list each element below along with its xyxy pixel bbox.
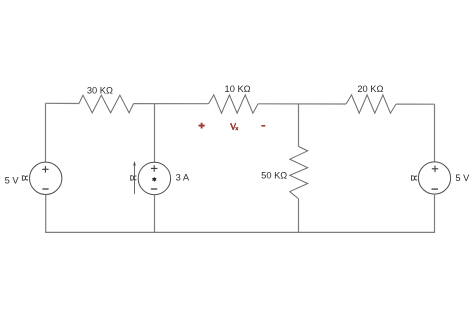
resistor 50 KΩ [290,147,308,199]
I1 DC mark [131,176,137,180]
V1 plus sign [42,166,48,173]
svg-text:3 A: 3 A [176,173,190,183]
resistor 20 KΩ [346,95,396,113]
resistor 10 KΩ [209,95,259,113]
svg-text:20 KΩ: 20 KΩ [357,84,383,94]
red minus polarity mark [261,125,265,127]
svg-text:30 KΩ: 30 KΩ [87,86,113,96]
wire bottom rail [45,231,435,233]
wire top rail R 30K to R 10K (through node A) [134,103,209,105]
svg-text:5 V: 5 V [455,173,470,183]
wire top rail segment V1 to R 30K [46,102,80,104]
current source I1 3 A [138,162,170,194]
V2 minus sign [432,188,439,190]
wire R 50K branch bottom [298,199,300,233]
wire right branch bottom [434,194,436,232]
voltage source V2 5 V [418,162,450,194]
red label vx [231,123,238,129]
wire left branch top [45,103,47,162]
wire current source branch top [154,104,156,163]
wire top rail R 10K to R 20K (through node B) [258,103,346,105]
svg-text:10 KΩ: 10 KΩ [225,84,251,94]
red plus polarity mark [199,123,205,129]
V2 plus sign [432,166,438,173]
resistor 30 KΩ [79,95,134,113]
I1 direction arrow [134,165,136,194]
wire left branch bottom [45,195,47,233]
wire R 50K branch top [298,104,300,147]
voltage source V1 5 V [30,162,62,194]
V2 DC mark [412,176,418,180]
wire right branch top [434,104,436,162]
svg-text:50 KΩ: 50 KΩ [261,171,287,181]
I1 plus sign [151,165,157,172]
wire current source branch bottom [154,195,156,233]
I1 minus sign [151,188,157,190]
V1 DC mark [22,176,28,180]
wire top rail R 20K to V2 corner [396,103,435,105]
V1 minus sign [42,188,48,190]
svg-text:5 V: 5 V [5,175,20,185]
I1 asterisk [152,177,157,182]
